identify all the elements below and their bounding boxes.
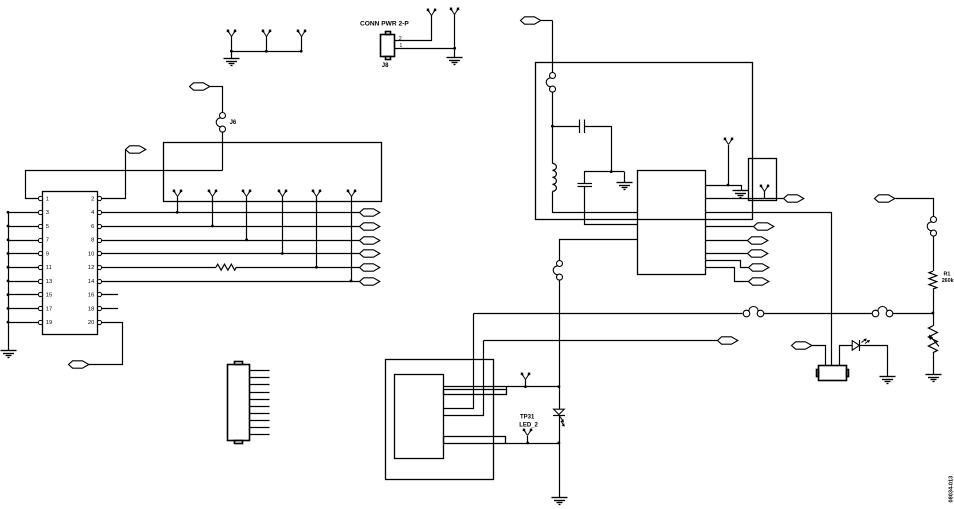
wire CN2 pin to LED anode [840, 346, 853, 366]
wire IC right pin to ground [706, 185, 742, 187]
node flag A [754, 223, 774, 230]
antenna box [749, 159, 777, 201]
jumper J6 [216, 113, 225, 133]
node flag VDD upper-left [190, 83, 223, 90]
wire H1 right down to ground [624, 172, 626, 183]
wire C1 right and down [585, 127, 612, 172]
jumper J3 [553, 261, 562, 281]
node flag antenna [784, 195, 804, 202]
wires CN3 pins [249, 371, 270, 435]
power arrow A8 with stem [241, 189, 252, 241]
wire pin8 row [102, 240, 360, 242]
wire IC pin to flag A [706, 226, 754, 228]
power arrow A11 with stem [346, 189, 357, 282]
junction dot pin1 [453, 47, 456, 50]
node flag row pin8 [360, 237, 380, 244]
module box outer [386, 360, 494, 480]
junction dot LED top [558, 385, 561, 388]
wire rail top-left [232, 51, 302, 53]
node flag F16 [792, 342, 826, 366]
node flag C [748, 250, 768, 257]
resistor R1 [929, 271, 937, 289]
power arrow A6 with stem [172, 189, 183, 214]
svg-text:15: 15 [46, 293, 52, 299]
wire pin4 row [102, 212, 360, 214]
ground at H1 [617, 183, 633, 190]
power arrow A2 top-left rail [261, 29, 272, 51]
connector CN3 body lower-left [228, 362, 250, 444]
svg-text:R1: R1 [944, 272, 951, 278]
IC U1 box [638, 171, 706, 275]
power arrow A3 top-left rail [296, 29, 307, 51]
svg-text:3: 3 [46, 210, 49, 216]
wire jumper to R1 [933, 236, 935, 271]
svg-text:9: 9 [46, 251, 49, 257]
svg-text:5: 5 [46, 224, 49, 230]
wire J8 pin1 [395, 48, 455, 50]
power arrow A14 with stem [520, 372, 531, 388]
wires left bus pins 3-19 [8, 213, 38, 351]
svg-text:TP31: TP31 [520, 414, 535, 420]
node flag row pin10 [360, 250, 380, 257]
wire pin10 row [102, 253, 360, 255]
node flag row pin12 [360, 264, 380, 271]
ground G8 [926, 375, 942, 382]
module pin bar bottom [444, 437, 506, 444]
junction dot LED bottom [558, 442, 561, 445]
svg-text:10: 10 [88, 251, 94, 257]
junction dot H1 [610, 170, 613, 173]
svg-text:J8: J8 [382, 63, 389, 69]
wire rail to ground stem [231, 51, 233, 59]
wire J8 pin2 [395, 16, 432, 41]
connector P1 20-pin box [43, 192, 98, 335]
module pin bar top [444, 390, 507, 395]
wire IC pin through antenna box to flag [706, 198, 784, 200]
inductor L1 [552, 163, 556, 191]
node flag pin2 [126, 146, 146, 153]
junction dots left bus [7, 211, 10, 324]
wire L1 down to IC pin [553, 192, 638, 213]
wire pin20 to flag [89, 323, 123, 365]
wire pin12 row with resistor [102, 267, 360, 269]
svg-text:13: 13 [46, 279, 52, 285]
node flag pin20 [69, 361, 89, 368]
wire bar1 neck [506, 387, 508, 390]
junction dot right net [932, 312, 935, 315]
svg-text:CONN PWR 2-P: CONN PWR 2-P [360, 20, 409, 27]
node flag row pin4 [360, 209, 380, 216]
wire flag down to jumper [552, 21, 554, 73]
wire long vertical into CN2 already drawn; connector CN2 body [817, 366, 849, 381]
jumper J7 horizontal [872, 307, 893, 317]
wire rheostat to ground [933, 353, 935, 375]
node flag row pin14 [360, 278, 380, 285]
wire long horizontal net [474, 313, 934, 315]
wire tee to capacitor C1 [553, 126, 580, 128]
wire pin2 to flag [102, 150, 126, 199]
pin circles left column [38, 196, 42, 324]
power arrow A1 top-left rail [226, 29, 237, 51]
svg-text:1: 1 [46, 197, 49, 203]
ground under rail [224, 59, 240, 66]
svg-text:2: 2 [91, 197, 94, 203]
node flag B [748, 237, 768, 244]
power arrow A9 with stem [277, 189, 288, 255]
wire IC pin to flag B [706, 240, 748, 242]
wire module mid pin 1 [444, 314, 474, 409]
wire jumper J3 down to LED junction [559, 280, 561, 387]
wire jumper J6 down [222, 132, 224, 171]
power arrow A4 [426, 8, 437, 15]
svg-text:7: 7 [46, 238, 49, 244]
wire down to ground G5 [741, 185, 743, 190]
power arrow A5 [449, 7, 460, 48]
node flag row pin6 [360, 223, 380, 230]
pin numbers right column [88, 197, 95, 327]
wire IC pin to flag C [706, 253, 748, 255]
wire H1 left down to C2 [584, 172, 586, 184]
LED D3 horizontal [852, 338, 870, 351]
wire pin6 row [102, 226, 360, 228]
svg-text:J6: J6 [230, 120, 237, 126]
wire pin14 row [102, 281, 360, 283]
ground G6 [552, 498, 568, 505]
jumper J4 horizontal [743, 307, 764, 317]
capacitor C1 [580, 120, 585, 134]
svg-text:14: 14 [88, 279, 95, 285]
power arrow A15 with stem [522, 428, 533, 444]
svg-text:08034-013: 08034-013 [949, 476, 954, 503]
module box inner [395, 375, 444, 459]
pin circles right column [97, 196, 101, 324]
wire module mid pin 2 [444, 341, 484, 416]
junction dots on rail [230, 50, 303, 53]
wire pin16 stub [102, 294, 119, 296]
svg-text:20: 20 [88, 320, 94, 326]
node flag right net [875, 195, 934, 217]
rectangle loop R_B [536, 63, 753, 220]
wire module pin top [444, 386, 560, 388]
junction dot cap tee [551, 125, 554, 128]
svg-text:6: 6 [91, 224, 94, 230]
svg-text:16: 16 [88, 293, 94, 299]
ground G7 [880, 377, 896, 384]
power arrow A12 with stem [723, 137, 734, 186]
svg-text:12: 12 [88, 265, 94, 271]
wire module pin bottom [506, 443, 560, 445]
svg-text:18: 18 [88, 306, 94, 312]
wire IC pin to flag D jog [706, 261, 749, 268]
node flag top-right net [521, 17, 553, 24]
wire IC pin to flag E jog [706, 268, 749, 282]
capacitor C2 [578, 184, 593, 187]
wire flag to jumper J6 [222, 86, 224, 112]
wire LED to ground [559, 443, 561, 497]
svg-text:8: 8 [91, 238, 94, 244]
svg-text:17: 17 [46, 306, 52, 312]
wire IC left pin to vertical [560, 240, 638, 261]
jumper J2 [546, 73, 555, 93]
wire IC pin long to bottom connector [706, 213, 832, 366]
resistor on pin12 row [216, 264, 236, 270]
jumper J9 [927, 217, 936, 237]
ground at J8 pin1 [447, 58, 463, 65]
wire C2 down to IC pin [585, 187, 638, 225]
svg-text:11: 11 [46, 265, 52, 271]
svg-text:260k: 260k [942, 278, 954, 284]
power arrow A10 with stem [311, 189, 322, 268]
ground G5 [733, 191, 749, 198]
power arrow A7 with stem [207, 189, 218, 227]
svg-text:19: 19 [46, 320, 52, 326]
svg-text:LED_2: LED_2 [519, 422, 538, 428]
wire pin1 to ground [454, 48, 456, 58]
pin numbers left column [46, 197, 52, 327]
LED D2 vertical [553, 387, 565, 444]
wire horizontal H1 [584, 171, 624, 173]
node flag F17 [718, 337, 738, 344]
ground left bus [1, 351, 17, 358]
wire jumper to cap tee [552, 93, 554, 164]
connector J8 body [381, 32, 395, 60]
power arrow A13 with stem [759, 184, 770, 198]
svg-text:4: 4 [91, 210, 95, 216]
wire flag net to TP flag [484, 340, 718, 342]
rectangle loop R_A [164, 143, 382, 202]
wire pin1 net horizontal [26, 171, 223, 199]
node flag D [749, 264, 769, 271]
wire R1 to junction [933, 289, 935, 326]
rheostat RH1 [928, 326, 939, 353]
wire LED cathode to ground [860, 346, 888, 377]
node flag E [749, 278, 769, 285]
wire pin18 stub [102, 308, 119, 310]
